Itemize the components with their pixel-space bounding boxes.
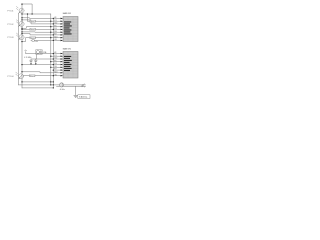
svg-text:OSC: OSC: [54, 74, 57, 76]
wire emitter return rail: [18, 13, 20, 85]
power stub +5v: [25, 52, 27, 54]
svg-text:RST: RST: [54, 34, 57, 36]
wire to IC1 pin 1: [22, 17, 63, 20]
wire to IC1 pin 5 net Reset2: [22, 28, 63, 30]
svg-text:MR: MR: [54, 17, 56, 19]
phototransistor PT101: [16, 7, 24, 14]
junction dots bus B2: [53, 18, 54, 89]
svg-text:RST: RST: [54, 69, 57, 71]
svg-text:XTAL: XTAL: [43, 51, 47, 54]
pin labels at bus IC2: [54, 52, 57, 76]
wire to IC1 pin 8 net Reset3: [22, 38, 63, 42]
transducer TX1: [60, 83, 64, 87]
svg-text:5.6k: 5.6k: [35, 41, 38, 43]
wire to IC2 pin 5: [22, 64, 63, 66]
svg-text:To Antenna: To Antenna: [79, 96, 88, 99]
svg-text:PFI: PFI: [54, 60, 57, 62]
IC U1: [63, 17, 78, 42]
label net Reset 1: [30, 20, 36, 23]
pin arrows IC1: [61, 18, 63, 42]
crystal Y1: [36, 50, 42, 55]
svg-text:+5v: +5v: [24, 50, 27, 52]
svg-text:PT 101: PT 101: [7, 11, 13, 13]
svg-text:PFO: PFO: [54, 28, 57, 30]
wire to IC1 pin 2 net Reset1: [28, 14, 64, 21]
junction dots rail: [21, 3, 32, 82]
wire net A level: [22, 13, 51, 15]
resistor R2: [31, 40, 34, 42]
IC U2: [63, 52, 78, 79]
wire bus line B1: [50, 14, 52, 85]
svg-text:MAX 691: MAX 691: [63, 47, 72, 50]
label box To Antenna: [78, 95, 90, 99]
wire to IC2 pin 7: [53, 69, 63, 71]
wire to IC2 pin 4: [51, 61, 63, 63]
phototransistor PT103: [16, 33, 24, 40]
wire to IC2 pin 3 oscillator: [31, 58, 63, 60]
label net Reset 2: [30, 28, 36, 31]
svg-text:VCC: VCC: [54, 20, 57, 22]
wire transducer output: [64, 84, 86, 86]
wire bottom net 2 to transducer: [19, 84, 60, 86]
wire to IC2 pin 6: [51, 66, 63, 68]
wire to IC1 pin 9: [34, 40, 63, 42]
pin labels at bus IC1: [54, 17, 57, 41]
svg-text:40 kHz: 40 kHz: [60, 89, 65, 91]
wire to IC2 pin 8: [22, 72, 63, 73]
phototransistor PT104: [16, 72, 24, 79]
wire crystal branch: [36, 54, 38, 59]
svg-text:PT 104: PT 104: [7, 76, 13, 78]
label net Reset 3: [30, 36, 36, 39]
svg-text:MAX 691: MAX 691: [63, 12, 72, 15]
wire to IC2 pin 2: [51, 55, 63, 57]
svg-text:WDI: WDI: [54, 31, 57, 33]
svg-text:1: 1: [84, 84, 85, 86]
wire bottom net 3: [22, 87, 53, 89]
svg-text:WDO: WDO: [54, 36, 57, 38]
svg-text:PFI: PFI: [54, 25, 57, 27]
wire to IC1 pin 4: [22, 27, 63, 29]
label net Reset 4: [29, 74, 35, 77]
terminal tick 2: [82, 86, 84, 87]
pin arrows IC2: [61, 53, 63, 77]
wire bottom net 1: [22, 81, 53, 83]
svg-text:WDI: WDI: [54, 66, 57, 68]
wire transducer to ground: [57, 85, 86, 87]
wire to IC1 pin 3: [22, 20, 63, 24]
wire to IC2 pin 1 oscillator: [26, 53, 63, 55]
svg-text:VCC: VCC: [54, 55, 57, 57]
phototransistor PT102: [16, 20, 24, 27]
svg-text:PT 102: PT 102: [7, 24, 13, 26]
svg-text:PT 103: PT 103: [7, 37, 13, 39]
wire bus line B2: [52, 18, 54, 88]
svg-text:GND: GND: [54, 58, 57, 60]
svg-text:OSC: OSC: [54, 39, 57, 41]
wire to IC1 pin 6: [22, 31, 63, 33]
capacitor C1: [30, 59, 33, 65]
wire to IC2 pin 9 net Reset4: [23, 75, 63, 77]
ground: [74, 95, 78, 97]
wire to IC1 pin 7: [22, 34, 63, 35]
IC1 pin name text: [64, 21, 72, 34]
wire ground drop: [75, 86, 77, 95]
svg-text:4.19 MHz: 4.19 MHz: [24, 57, 31, 59]
svg-text:WDO: WDO: [54, 71, 57, 73]
terminal tick 1: [82, 84, 84, 85]
svg-text:GND: GND: [54, 23, 57, 25]
svg-text:MR: MR: [54, 52, 56, 54]
IC2 pin name text: [64, 56, 72, 71]
svg-text:2: 2: [84, 87, 85, 89]
capacitor C2: [35, 59, 38, 65]
wire collector rail: [21, 4, 23, 88]
svg-text:PFO: PFO: [54, 63, 57, 65]
junction dots bus B1: [50, 21, 51, 86]
wire top net A: [22, 4, 32, 14]
